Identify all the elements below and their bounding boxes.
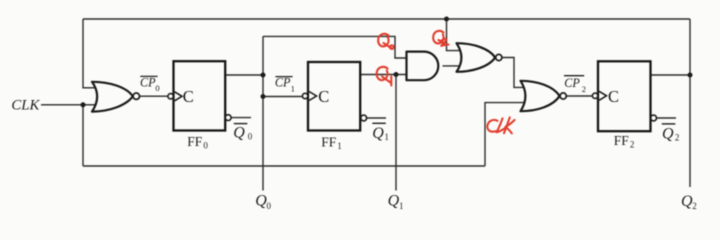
wire FF0 Qbar stub — [231, 117, 251, 119]
label CP0 — [140, 75, 160, 93]
annotation red Q0 handwritten — [378, 34, 388, 47]
svg-text:1: 1 — [384, 132, 389, 142]
svg-text:1: 1 — [337, 141, 342, 151]
node junction FF0 Q / Q0 — [261, 73, 266, 78]
wire AND output to NOR2 lower input — [443, 65, 463, 67]
node junction FF2 Q / Q2 — [688, 73, 693, 78]
annotation red Q1 handwritten — [377, 67, 388, 80]
wire bottom feedback rising to NOR3 lower input — [485, 103, 527, 166]
FF1 clock bubble and wedge — [302, 93, 307, 98]
svg-text:CP: CP — [564, 76, 580, 90]
gate NOR3 — [521, 81, 560, 111]
flip-flop FF1 — [308, 62, 360, 131]
label CP1 — [275, 76, 295, 94]
svg-text:CLK: CLK — [11, 98, 40, 114]
node junction FF1 Q / Q1 — [394, 72, 399, 77]
FF0 Qbar bubble — [225, 115, 231, 121]
wire node Q0 vertical — [262, 36, 264, 190]
label FF0 — [187, 134, 208, 151]
flip-flop FF0 — [174, 61, 226, 130]
svg-text:C: C — [183, 87, 194, 106]
wire top feedback Q2 to NOR1 — [83, 18, 690, 20]
svg-text:CP: CP — [140, 75, 156, 89]
FF2 clock bubble and wedge — [592, 93, 597, 98]
svg-text:CP: CP — [275, 76, 291, 90]
wire FF0 Q output — [225, 74, 263, 76]
wire NOR3 output CP2 to FF2 clock — [566, 95, 592, 97]
svg-text:FF: FF — [321, 134, 337, 149]
label Qbar1 — [372, 123, 389, 142]
svg-text:Q: Q — [255, 193, 267, 210]
svg-text:2: 2 — [692, 201, 697, 211]
svg-text:0: 0 — [267, 201, 272, 211]
svg-text:0: 0 — [203, 141, 208, 151]
svg-text:FF: FF — [614, 133, 630, 148]
svg-text:1: 1 — [399, 201, 404, 211]
wire left vertical from top wire to NOR1 upper input — [83, 19, 99, 88]
svg-text:Q: Q — [372, 125, 384, 142]
svg-text:C: C — [318, 87, 329, 106]
label FF1 — [321, 134, 342, 151]
svg-text:Q: Q — [388, 193, 400, 210]
node junction CLK — [81, 102, 86, 107]
wire Q0 to AND gate upper input — [263, 36, 408, 58]
FF0 clock bubble and wedge — [168, 94, 173, 99]
FF2 Qbar bubble — [651, 115, 657, 121]
label Qbar2 — [662, 124, 680, 143]
wire node Q1 vertical — [395, 75, 397, 191]
wire FF2 Q output — [651, 74, 691, 76]
svg-text:C: C — [608, 87, 619, 106]
svg-text:2: 2 — [630, 140, 635, 150]
svg-text:2: 2 — [582, 84, 586, 94]
svg-text:0: 0 — [248, 131, 253, 141]
svg-text:2: 2 — [675, 133, 680, 143]
wire FF2 Qbar stub — [657, 117, 677, 119]
label Q0 output — [255, 193, 271, 211]
gate NOR2 — [457, 43, 496, 72]
wire NOR1 output CP0 to FF0 clock — [140, 95, 169, 97]
svg-text:FF: FF — [187, 134, 203, 149]
label Q1 output — [388, 193, 404, 211]
wire FF1 Q output to AND gate lower input — [360, 74, 408, 76]
svg-text:Q: Q — [681, 193, 693, 210]
svg-text:0: 0 — [155, 83, 159, 93]
svg-text:Q: Q — [662, 125, 674, 142]
gate AND — [407, 52, 439, 81]
svg-text:Q: Q — [233, 125, 245, 142]
wire FF1 Qbar stub — [367, 117, 386, 119]
label Q2 output — [681, 193, 697, 211]
wire CLK input — [41, 104, 99, 106]
label Qbar0 — [233, 124, 253, 142]
label FF2 — [614, 133, 635, 150]
wire CP1 from Q0 node to FF1 clock — [263, 96, 303, 98]
svg-text:1: 1 — [291, 84, 295, 94]
node junction CP1 tap — [261, 94, 266, 99]
wire top wire tap down to NOR2 upper input — [447, 19, 463, 51]
wire NOR2 output to NOR3 upper input — [502, 58, 526, 88]
annotation red Q2 handwritten — [433, 31, 443, 44]
label CP2 — [564, 76, 586, 94]
wire from CLK junction down to bottom feedback — [82, 105, 84, 166]
FF1 Qbar bubble — [361, 115, 367, 121]
node junction top wire to NOR2 — [444, 17, 449, 22]
wire node Q2 vertical — [689, 19, 691, 187]
annotation red CLK handwritten — [487, 120, 497, 132]
gate NOR1 — [92, 82, 133, 112]
flip-flop FF2 — [598, 61, 651, 131]
wire bottom feedback horizontal — [83, 165, 485, 167]
